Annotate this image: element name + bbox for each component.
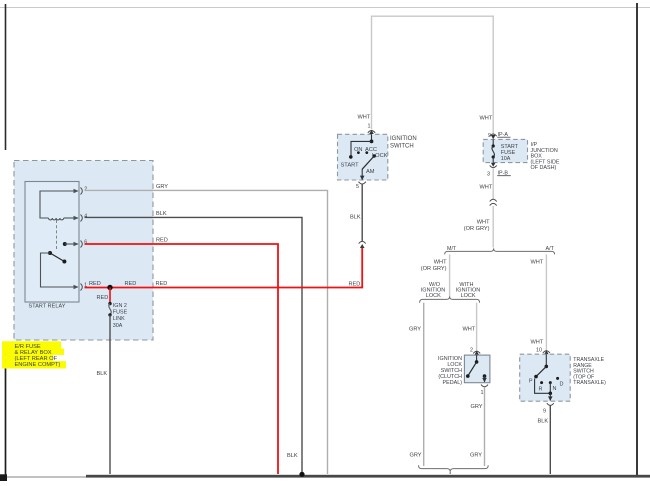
ignition switch pin 5 connector <box>359 182 366 184</box>
svg-text:LOCK: LOCK <box>372 153 388 159</box>
ignition switch internal feed <box>371 134 373 141</box>
relay contact fixed point (pin 6) <box>63 242 67 246</box>
relay pin 1 connector arc <box>81 284 83 291</box>
svg-text:ENGINE COMPT): ENGINE COMPT) <box>15 362 61 368</box>
svg-text:GRY: GRY <box>156 184 168 190</box>
svg-text:1: 1 <box>368 124 371 130</box>
svg-text:A/T: A/T <box>546 246 555 252</box>
svg-text:P: P <box>529 379 533 385</box>
svg-text:BLK: BLK <box>156 211 167 217</box>
ignition lock switch internals <box>476 355 478 362</box>
svg-text:30A: 30A <box>113 323 123 329</box>
svg-text:SWITCH: SWITCH <box>390 144 414 150</box>
wire BLK from relay pin 4 <box>85 217 303 473</box>
relay pin 6 connector arc <box>81 241 83 248</box>
svg-text:RED: RED <box>156 281 168 287</box>
yellow highlight note: E/R fuse and relay box location <box>2 341 61 348</box>
svg-text:BLK: BLK <box>538 419 549 425</box>
splice merge of GRY wires <box>419 465 489 472</box>
svg-text:OF DASH): OF DASH) <box>531 165 557 171</box>
ignition switch ON contact <box>357 151 360 154</box>
inline connector on ignition switch feed wire <box>359 241 366 243</box>
ignition switch wiper arm AM to LOCK <box>362 156 374 169</box>
wire RED from relay pin 6 <box>85 244 279 474</box>
relay pin 4 connector arc <box>81 215 83 222</box>
svg-text:BLK: BLK <box>287 453 298 459</box>
svg-text:AM: AM <box>366 169 375 175</box>
svg-text:N: N <box>553 386 557 392</box>
svg-text:3: 3 <box>487 171 490 177</box>
svg-text:WHT: WHT <box>531 260 544 266</box>
svg-text:RED: RED <box>89 281 101 287</box>
wire GRY from ignition lock switch pin 1 <box>484 387 486 466</box>
I/P junction box (dashed) <box>483 139 527 162</box>
start relay K1 box <box>25 182 79 303</box>
I/P junction box exit connector IP-B <box>491 163 496 167</box>
svg-text:R: R <box>539 387 543 393</box>
ignition switch AM leg <box>361 169 363 180</box>
svg-text:(OR GRY): (OR GRY) <box>464 226 490 232</box>
E/R fuse and relay box (dashed) <box>14 161 153 341</box>
svg-text:10: 10 <box>536 348 542 354</box>
svg-text:LOCK: LOCK <box>461 293 476 299</box>
wire GRY w/o ignition lock branch <box>423 303 425 466</box>
wire GRY from relay pin 2 <box>85 190 328 474</box>
page top border line <box>0 7 650 9</box>
merged wire to bottom <box>449 472 451 474</box>
svg-text:WHT: WHT <box>480 185 493 191</box>
relay coil-to-contact dashed link <box>56 220 58 250</box>
svg-text:2: 2 <box>470 348 473 354</box>
svg-text:IGNITION: IGNITION <box>390 136 417 142</box>
page right border line <box>636 3 638 477</box>
wire RED from relay pin 1 to ignition switch <box>85 248 363 288</box>
splice split M/T A/T <box>445 248 555 254</box>
svg-text:BLK: BLK <box>350 215 361 221</box>
svg-text:IGN 2: IGN 2 <box>113 303 127 309</box>
relay coil internal wire pin2 side <box>40 191 78 218</box>
ignition lock switch box <box>464 355 490 383</box>
svg-text:M/T: M/T <box>447 246 457 252</box>
svg-text:BLK: BLK <box>97 371 108 377</box>
ignition switch box (dashed) <box>338 134 388 180</box>
svg-text:WHT: WHT <box>531 340 544 346</box>
svg-text:4: 4 <box>84 214 87 220</box>
relay pin arrows at box edge <box>74 189 79 193</box>
page bottom border line (light left part) <box>0 476 86 478</box>
svg-text:ON: ON <box>354 147 363 153</box>
page bottom border line (dark part) <box>86 475 650 478</box>
svg-text:FUSE: FUSE <box>113 310 128 316</box>
svg-text:WHT: WHT <box>477 220 490 226</box>
svg-text:RED: RED <box>125 281 137 287</box>
relay internal wire to pin 1 <box>41 253 79 287</box>
transaxle range switch internals <box>545 354 547 366</box>
svg-text:D: D <box>560 382 564 388</box>
svg-text:RED: RED <box>156 238 168 244</box>
svg-text:WHT: WHT <box>463 327 476 333</box>
page bottom-left corner mark <box>0 474 7 481</box>
wire BLK from transaxle range switch pin 9 <box>549 406 551 475</box>
svg-text:WHT: WHT <box>434 260 447 266</box>
svg-text:TRANSAXLE): TRANSAXLE) <box>573 380 606 386</box>
svg-text:RED: RED <box>97 295 109 301</box>
svg-text:START RELAY: START RELAY <box>29 304 66 310</box>
svg-text:WHT: WHT <box>358 115 371 121</box>
svg-text:GRY: GRY <box>409 327 421 333</box>
BLK wire end dot at bottom <box>299 472 304 477</box>
transaxle range switch box (dashed) <box>520 354 571 401</box>
svg-text:LINK: LINK <box>113 316 125 322</box>
IGN 2 fuse link 30A <box>109 288 111 303</box>
ignition lock switch pin 1 connector <box>481 385 488 387</box>
svg-text:10A: 10A <box>501 156 511 162</box>
relay coil internal wire pin4 side <box>64 217 78 219</box>
svg-text:START: START <box>341 163 360 169</box>
relay coil winding <box>49 218 64 220</box>
splice split W/O - WITH ignition lock <box>420 296 480 302</box>
wire BLK below fuse link <box>109 315 111 474</box>
svg-text:GRY: GRY <box>410 453 422 459</box>
ignition switch ACC contact <box>365 151 368 154</box>
start fuse element <box>492 139 494 146</box>
wire WHT A/T branch <box>545 254 547 350</box>
wire WHT from junction box down <box>492 169 494 200</box>
wire WHT top loop: ignition switch pin 1 to junction box <box>372 16 494 136</box>
svg-text:(OR GRY): (OR GRY) <box>421 266 447 272</box>
page left border line (upper segment) <box>5 4 7 150</box>
svg-text:RED: RED <box>349 282 361 288</box>
wire WHT with ignition lock branch <box>476 303 478 351</box>
svg-text:GRY: GRY <box>470 453 482 459</box>
svg-text:GRY: GRY <box>471 404 483 410</box>
page left border line (lower segment) <box>5 350 7 478</box>
svg-text:9: 9 <box>543 409 546 415</box>
relay movable contact arm <box>50 253 64 262</box>
wire WHT (OR GRY) M/T branch <box>449 254 451 296</box>
relay pin 2 connector arc <box>81 188 83 195</box>
svg-text:WHT: WHT <box>480 116 493 122</box>
svg-text:5: 5 <box>356 184 359 190</box>
junction node on pin1 red wire <box>107 285 112 290</box>
svg-text:1: 1 <box>481 390 484 396</box>
transaxle range switch pin 9 connector <box>547 403 554 405</box>
svg-text:LOCK: LOCK <box>426 293 441 299</box>
svg-text:2: 2 <box>84 187 87 193</box>
svg-text:PEDAL): PEDAL) <box>443 380 463 386</box>
ignition switch START contact <box>349 155 353 159</box>
wire BLK from ignition switch pin 5 <box>361 185 363 242</box>
inline connector on junction box wire <box>490 199 497 201</box>
